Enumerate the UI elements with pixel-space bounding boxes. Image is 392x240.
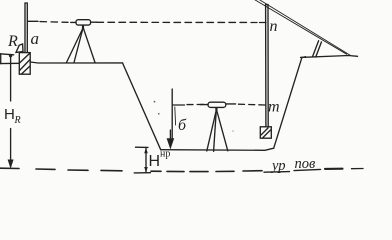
staff at peg (right): [265, 5, 267, 127]
benchmark R hatched block: [19, 53, 30, 75]
slope strut hatches: [313, 41, 319, 57]
scan specks: [158, 113, 160, 115]
wire sight line 1 dashed: [28, 20, 38, 22]
svg-text:H: H: [4, 106, 15, 123]
wire sight line 2 dashed: [173, 104, 184, 106]
svg-text:a: a: [31, 29, 40, 48]
dimension line H_R: [10, 56, 12, 101]
op: level instrument 1 tripod legs: [67, 28, 84, 63]
underline ur: [264, 171, 290, 174]
ground line left lower: [0, 62, 19, 64]
node junction dot: [9, 54, 12, 57]
left edge tick: [0, 54, 2, 64]
staff in excavation: [171, 89, 173, 140]
svg-text:R: R: [14, 115, 21, 126]
dimension H^np ticks: [136, 146, 149, 148]
excavation bottom: [161, 148, 274, 150]
underline pov: [294, 169, 321, 170]
svg-text:n: n: [270, 18, 278, 35]
level instrument 1 telescope: [82, 25, 84, 28]
ground line right of benchmark: [30, 62, 122, 63]
level instrument 2 tripod legs: [207, 110, 217, 151]
ground line left of benchmark (upper tick): [0, 54, 14, 55]
level instrument 2 telescope: [215, 107, 217, 110]
natural slope double line: [255, 0, 346, 54]
svg-text:б: б: [178, 117, 187, 134]
right slope of excavation: [274, 57, 302, 148]
svg-text:H: H: [149, 153, 161, 170]
svg-text:R: R: [7, 33, 18, 50]
slope corner thick mark: [301, 56, 307, 58]
peg hatched box: [260, 127, 271, 138]
arrow at staff foot: [167, 138, 175, 149]
svg-text:m: m: [268, 99, 280, 116]
left slope of excavation: [123, 63, 161, 150]
svg-text:нр: нр: [160, 149, 170, 160]
datum dashed line (level surface): [0, 167, 19, 169]
ground line right of excavation: [301, 56, 358, 58]
benchmark cap: [16, 44, 23, 52]
staff (rod) at benchmark: [24, 3, 26, 52]
